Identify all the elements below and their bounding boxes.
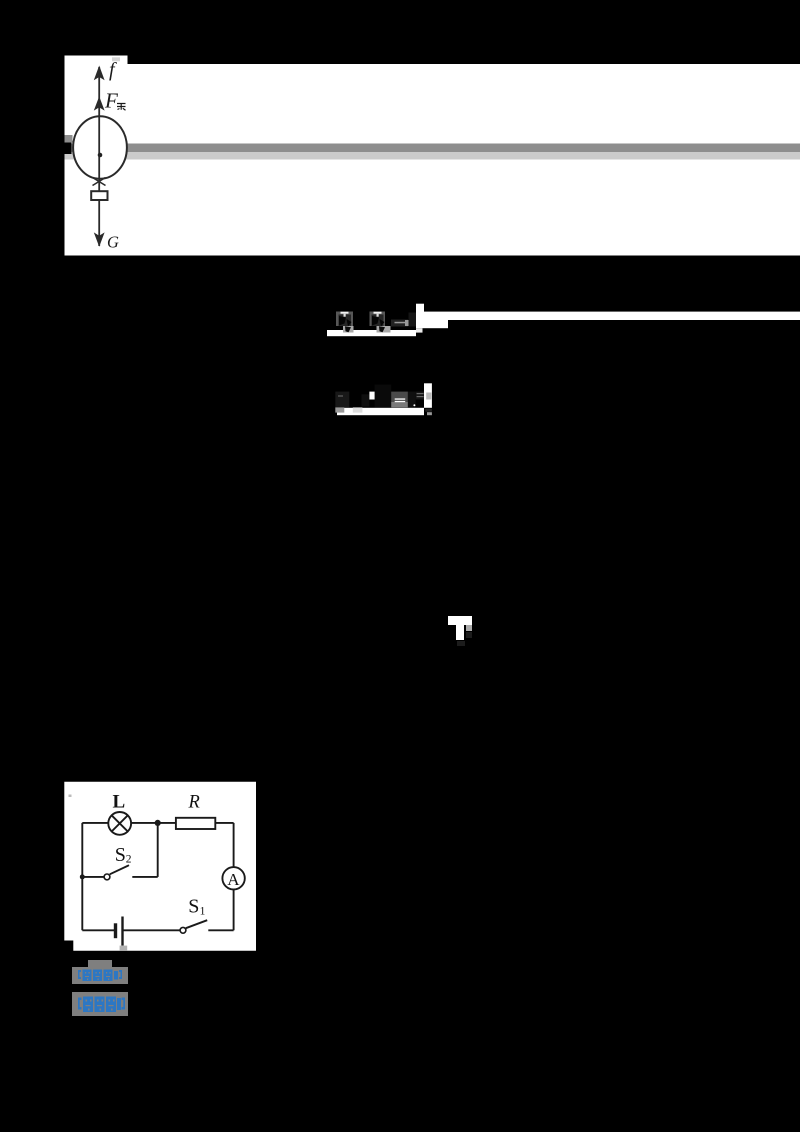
lamp L circle [108,812,131,835]
gray stripe dark [65,144,800,153]
basket rect [91,191,107,200]
ammeter A circle [222,867,244,889]
wire S2 branch vertical [157,823,159,877]
wire top-left (corner to lamp) [82,822,108,824]
gray sub left [335,407,344,412]
F1 subscript block [343,326,354,333]
center dot [98,153,103,158]
glyph block [416,392,425,400]
circuit schematic patch [64,781,256,951]
white dot [413,404,415,406]
balloon ellipse [73,116,127,179]
gray small left of f [405,320,409,326]
gray mark below battery [120,946,128,951]
formula 1 fragment [327,303,800,337]
equals block [391,392,408,402]
wire bottom left to battery [82,929,115,931]
formula 2 fragment [330,383,435,417]
F2 subscript block [377,326,391,333]
white backing left column [65,56,128,256]
light gray under [416,328,423,332]
wire S2 right segment [132,876,157,878]
wire right vertical lower [233,890,235,931]
answer block 1 [72,967,128,984]
dark block right [408,392,416,408]
svg-text:S: S [115,844,126,866]
svg-text:2: 2 [126,854,132,866]
gray stripe light [65,152,800,160]
wire S2 left segment [82,876,104,878]
answer block 2 blue text [72,992,128,1017]
f glyph mass [409,313,418,327]
switch S1 blade [186,920,207,928]
switch S2 blade [110,865,129,874]
svg-text:A: A [227,870,240,889]
wire left vertical [81,823,83,930]
gray block F1 [336,312,353,327]
answer tab gray [88,960,112,967]
figure 1 white band (balloon force diagram) [64,54,800,256]
force axis line [98,67,100,246]
node junction top (L-R-S2) [155,820,161,826]
answer block 2 [72,992,128,1016]
white backing main band [127,64,800,256]
wire resistor to right corner [215,822,233,824]
battery short plate [114,923,117,938]
left edge black block [65,143,72,155]
svg-text:S: S [188,896,199,918]
resistor R body [176,818,215,829]
svg-text:F: F [104,89,118,113]
wire right vertical upper [233,823,235,867]
white step [424,320,448,329]
arrowhead F floating (up) [94,96,105,110]
label floating subscript [117,104,126,111]
dark marks bottom right [425,409,432,412]
wire lamp to resistor [131,822,176,824]
dark mass [375,385,392,408]
wire S1 to right corner [208,929,233,931]
small gray square top [112,57,120,61]
svg-text:R: R [188,793,200,813]
svg-text:L: L [113,792,126,813]
battery long plate [121,917,123,946]
dark block rho [335,392,349,408]
white bottom band [327,330,416,336]
node junction left (S2 tap) [80,874,85,879]
gray sub in white [426,393,431,400]
white block [416,304,424,329]
arrowhead G (down) [94,232,105,246]
switch S2 open contact circle [104,874,110,880]
white block right [424,383,432,408]
lamp X [112,815,128,831]
long white strip [424,312,800,320]
white bottom band [337,408,424,415]
white mid block [369,392,378,400]
balloon neck tie [93,178,106,186]
light sub [353,407,363,412]
white T mark [448,616,474,650]
svg-text:1: 1 [200,905,206,917]
minus block [391,320,408,327]
dark small block [362,394,370,406]
gray block F2 [370,312,386,327]
left edge gray above [65,135,73,143]
arrowhead f (up) [94,66,105,81]
answer block 1 blue text [72,967,128,984]
wire battery to S1 [123,929,181,931]
switch S1 open contact circle [180,927,186,933]
gray mark bottom right [427,412,432,415]
faint speck top-left [69,795,72,798]
white backing with bottom-left notch [64,782,256,951]
svg-text:G: G [107,233,119,252]
